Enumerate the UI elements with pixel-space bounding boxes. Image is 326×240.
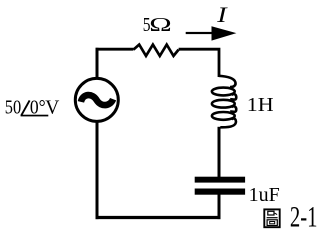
resistor R1 5 ohm zigzag [133,45,178,56]
svg-text:1H: 1H [247,93,274,116]
svg-text:50: 50 [5,96,21,118]
sine symbol inside source [81,95,113,105]
wire: bottom rail [96,216,221,219]
angle slash of phasor notation [21,100,29,115]
wire: left rail upper (top corner to source top) [96,48,99,79]
voltage source V1 circle [75,78,118,121]
svg-text:I: I [216,3,228,28]
capacitor C1 plates (1uF) [195,177,245,195]
figure caption glyph (CJK tu drawn as SVG) [264,209,279,227]
wire: left rail lower (source bottom to bottom corner) [96,122,99,220]
svg-text:Ω: Ω [149,13,171,36]
svg-text:2-1: 2-1 [290,201,318,233]
inductor L1 (1H) coil [212,76,236,128]
wire: right rail capacitor to bottom corner [218,194,221,219]
wire: right rail inductor to capacitor [218,127,221,178]
underline of angle notation [21,115,49,117]
wire: resistor to top-right corner and down to inductor [179,49,219,77]
current arrow I [186,26,237,40]
svg-text:1uF: 1uF [249,184,280,206]
wire: top-left from left rail corner to resistor [96,48,134,51]
